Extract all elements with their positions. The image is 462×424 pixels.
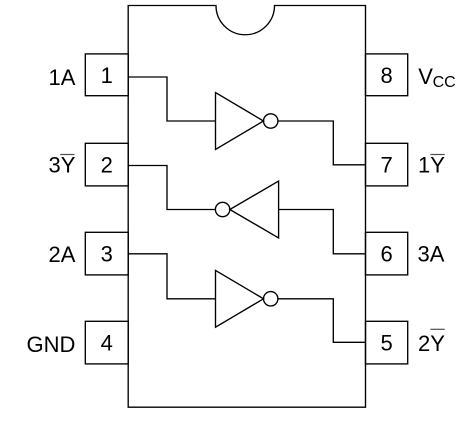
pin 1 box — [85, 54, 128, 96]
inverter U1b output bubble — [215, 202, 229, 216]
wire inverter U1b output to pin2 — [128, 166, 215, 210]
net label 2Y-bar (pin 5) — [418, 329, 445, 356]
inverter U1a triangle — [216, 93, 264, 150]
svg-text:2: 2 — [101, 153, 113, 178]
svg-text:1: 1 — [101, 63, 113, 88]
svg-text:5: 5 — [380, 331, 392, 356]
IC body U1 (DIP-8 outline with notch) — [128, 6, 365, 408]
svg-text:8: 8 — [380, 63, 392, 88]
inverter U1c triangle — [216, 270, 264, 327]
svg-text:GND: GND — [27, 332, 76, 357]
pin 6 box — [366, 232, 408, 275]
svg-text:1Y: 1Y — [418, 153, 445, 178]
pin 2 box — [85, 143, 128, 186]
svg-text:CC: CC — [433, 74, 456, 91]
inverter U1c output bubble — [264, 292, 278, 306]
inverter U1b triangle — [230, 181, 279, 238]
pin 8 box — [366, 54, 408, 96]
svg-text:4: 4 — [101, 331, 113, 356]
wire pin3 to inverter U1c input — [128, 254, 215, 299]
svg-text:7: 7 — [380, 153, 392, 178]
wire inverter U1a output to pin7 — [278, 121, 366, 165]
svg-text:3A: 3A — [418, 242, 445, 267]
inverter U1a output bubble — [264, 114, 278, 128]
wire pin1 to inverter U1a input — [128, 77, 215, 121]
svg-text:2Y: 2Y — [418, 331, 445, 356]
svg-text:3: 3 — [101, 242, 113, 267]
pin 5 box — [366, 321, 408, 364]
wire pin6 to inverter U1b input — [279, 210, 366, 254]
pin 3 box — [85, 232, 128, 275]
svg-text:V: V — [418, 64, 433, 89]
wire inverter U1c output to pin5 — [278, 299, 366, 343]
svg-text:1A: 1A — [48, 65, 75, 90]
svg-text:2A: 2A — [48, 242, 75, 267]
net label 3Y-bar (pin 2) — [48, 153, 75, 178]
pin 7 box — [366, 143, 408, 186]
svg-text:6: 6 — [380, 242, 392, 267]
pin 4 box — [85, 321, 128, 364]
svg-text:3Y: 3Y — [48, 153, 75, 178]
net label 1Y-bar (pin 7) — [418, 153, 445, 178]
net label VCC (pin 8) — [418, 64, 455, 91]
